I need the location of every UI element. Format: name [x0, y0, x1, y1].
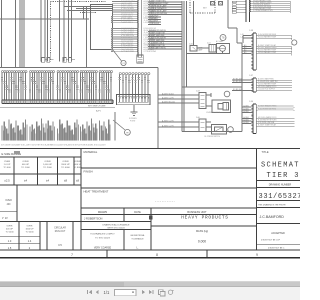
svg-text:L-10R/Y IGNITI: L-10R/Y IGNITI	[121, 3, 133, 5]
svg-text:TIER 3 E: TIER 3 E	[267, 172, 301, 180]
svg-text:331/65327: 331/65327	[259, 193, 301, 201]
svg-text:WITH STD 00024: WITH STD 00024	[107, 227, 125, 229]
svg-text:E-20B EARTH RETU: E-20B EARTH RETU	[149, 47, 167, 50]
svg-text:K-204 HORN SW: K-204 HORN SW	[121, 45, 134, 47]
svg-text:TO 4000: TO 4000	[61, 167, 70, 169]
svg-text:OVER: OVER	[44, 161, 51, 163]
svg-text:C-77R ALTERNATOR W/L: C-77R ALTERNATOR W/L	[253, 9, 273, 12]
svg-text:TO STD 00023: TO STD 00023	[95, 238, 110, 240]
svg-text:TO 1000: TO 1000	[21, 167, 30, 169]
svg-text:7: 7	[71, 253, 73, 257]
svg-text:0.5: 0.5	[58, 244, 62, 247]
svg-text:W-204 WASHER PUMP: W-204 WASHER PUMP	[258, 36, 277, 39]
svg-text:A-70R/L C-77R: A-70R/L C-77R	[162, 120, 174, 123]
svg-text:TITLE: TITLE	[262, 150, 269, 154]
svg-text:1,000 UP: 1,000 UP	[43, 164, 53, 166]
svg-text:F-10 FUSE LINK: F-10 FUSE LINK	[121, 41, 134, 43]
svg-text:A-50R/L C-77R: A-50R/L C-77R	[162, 97, 174, 100]
svg-text:OVER: OVER	[4, 161, 11, 163]
svg-text:J1-W-204 W: J1-W-204 W	[149, 23, 159, 25]
svg-text:MATERIAL: MATERIAL	[84, 150, 98, 154]
svg-text:OVER: OVER	[27, 226, 33, 228]
svg-text:VERY COARSE: VERY COARSE	[94, 246, 112, 249]
svg-text:1000 UP: 1000 UP	[25, 229, 34, 231]
svg-text:9: 9	[256, 253, 258, 257]
svg-text:A-70R/L C-77R: A-70R/L C-77R	[162, 125, 174, 128]
svg-text:2000 UP: 2000 UP	[61, 164, 70, 166]
svg-text:SCHEMATIC: SCHEMATIC	[261, 162, 300, 170]
svg-text:4 MUST NOT BE C: 4 MUST NOT BE C	[268, 247, 285, 249]
svg-text:1.4: 1.4	[28, 240, 32, 243]
svg-text:C-60: C-60	[196, 117, 200, 119]
svg-text:TO 400: TO 400	[3, 167, 11, 169]
svg-text:K-204 HORN SW: K-204 HORN SW	[121, 7, 134, 9]
svg-text:1/1: 1/1	[104, 290, 110, 295]
svg-text:MASS (kg): MASS (kg)	[196, 230, 208, 233]
svg-text:OIL PRESS SWITCH: OIL PRESS SWITCH	[204, 136, 221, 138]
svg-text:±8: ±8	[64, 179, 68, 183]
svg-text:A-50R/L MC-D01: A-50R/L MC-D01	[162, 101, 175, 104]
svg-text:DRAWN: DRAWN	[98, 211, 108, 214]
svg-text:J1-1020 ECU SU: J1-1020 ECU SU	[121, 28, 134, 30]
svg-text:K-204 HORN SW FEED: K-204 HORN SW FEED	[258, 109, 277, 111]
svg-text:POINT: POINT	[130, 120, 136, 122]
svg-text:0.000: 0.000	[198, 239, 206, 243]
svg-text:W-204 WASHER PUMP: W-204 WASHER PUMP	[258, 51, 277, 54]
svg-text:±2.5: ±2.5	[4, 179, 10, 183]
svg-text:K-204 HORN SW: K-204 HORN SW	[121, 20, 134, 22]
svg-text:NO MC-D010: NO MC-D010	[233, 81, 243, 83]
svg-text:F-10 FUSE LINK: F-10 FUSE LINK	[121, 34, 134, 36]
svg-text:OVER: OVER	[74, 161, 81, 163]
svg-text:J.C.BAMFORD: J.C.BAMFORD	[260, 215, 285, 219]
svg-text:400 UP: 400 UP	[6, 229, 14, 231]
svg-text:TO 1000: TO 1000	[5, 232, 14, 234]
svg-text:ACCEPTED: ACCEPTED	[271, 232, 285, 235]
svg-text:±4: ±4	[46, 179, 50, 183]
svg-text:C-98: C-98	[249, 30, 253, 32]
svg-text:1.5: 1.5	[8, 247, 12, 250]
svg-text:J ROBERTSON: J ROBERTSON	[84, 217, 103, 221]
svg-text:DRAWING NUMBER: DRAWING NUMBER	[269, 183, 292, 186]
svg-text:C-97: C-97	[249, 75, 253, 77]
svg-text:KEY SWITCH LINE: KEY SWITCH LINE	[88, 106, 106, 108]
svg-text:P-14G/W SIDE L: P-14G/W SIDE L	[121, 14, 133, 16]
svg-text:1.0 UP: 1.0 UP	[4, 164, 11, 166]
svg-text:FINISH: FINISH	[84, 169, 93, 173]
svg-text:H-77N/Y HEATER FEED: H-77N/Y HEATER FEED	[258, 105, 277, 108]
svg-text:F-10 FUSE LINK: F-10 FUSE LINK	[121, 49, 134, 51]
svg-text:J1-1020 ECU SU: J1-1020 ECU SU	[121, 12, 134, 14]
svg-text:OVER: OVER	[62, 161, 69, 163]
svg-text:OVER: OVER	[7, 226, 13, 228]
svg-text:TOLERANCE: TOLERANCE	[131, 237, 144, 240]
svg-text:A-50R/L W-204: A-50R/L W-204	[162, 93, 174, 96]
svg-text:±8: ±8	[76, 179, 80, 183]
svg-text:NO MC-D010: NO MC-D010	[233, 78, 243, 80]
svg-text:J1-1020 ECU SUPPLY: J1-1020 ECU SUPPLY	[258, 89, 276, 91]
svg-text:TO 2000: TO 2000	[25, 232, 34, 234]
svg-text:HEAVY PRODUCTS: HEAVY PRODUCTS	[181, 216, 228, 221]
svg-text:8: 8	[156, 253, 158, 257]
svg-text:4000 UP: 4000 UP	[73, 164, 82, 166]
svg-text:GEOMETRICAL: GEOMETRICAL	[130, 234, 145, 237]
svg-text:C-96: C-96	[249, 101, 253, 103]
svg-text:- - - - - - - - - - - -: - - - - - - - - - - - -	[155, 199, 175, 203]
svg-text:DATE: DATE	[134, 211, 141, 214]
svg-text:1.0: 1.0	[8, 240, 12, 243]
svg-text:C-51: C-51	[207, 43, 211, 45]
svg-text:400 UP: 400 UP	[22, 164, 30, 166]
svg-text:THIS DRAWING IS THE PROPE: THIS DRAWING IS THE PROPE	[258, 203, 286, 206]
svg-text:NO MC-D010: NO MC-D010	[233, 89, 243, 91]
svg-text:L-10R/Y IGNITI: L-10R/Y IGNITI	[121, 16, 133, 18]
svg-text:DRAWN IN ACCORDANCE: DRAWN IN ACCORDANCE	[102, 223, 130, 226]
svg-text:HEAT TREATMENT: HEAT TREATMENT	[84, 189, 109, 193]
svg-text:B-31B/Y START RELAY: B-31B/Y START RELAY	[258, 124, 277, 127]
svg-text:CIRCULAR: CIRCULAR	[54, 227, 66, 230]
svg-text:1° 20': 1° 20'	[2, 218, 8, 220]
svg-text:TOLERANCES COMPLY: TOLERANCES COMPLY	[90, 233, 115, 236]
svg-text:±4: ±4	[24, 179, 28, 183]
svg-text:RUN-OUT: RUN-OUT	[55, 231, 66, 233]
svg-text:BUSINESS UNIT: BUSINESS UNIT	[187, 211, 207, 214]
svg-text:JOHNSON DIODE: JOHNSON DIODE	[206, 112, 221, 114]
svg-text:OVER: OVER	[5, 200, 12, 202]
svg-text:4 MUST NOT BE COP: 4 MUST NOT BE COP	[261, 240, 281, 242]
svg-text:P-14G/W SIDE L: P-14G/W SIDE L	[121, 22, 133, 24]
svg-text:TO 2000: TO 2000	[43, 167, 52, 169]
svg-text:OVER: OVER	[22, 161, 29, 163]
